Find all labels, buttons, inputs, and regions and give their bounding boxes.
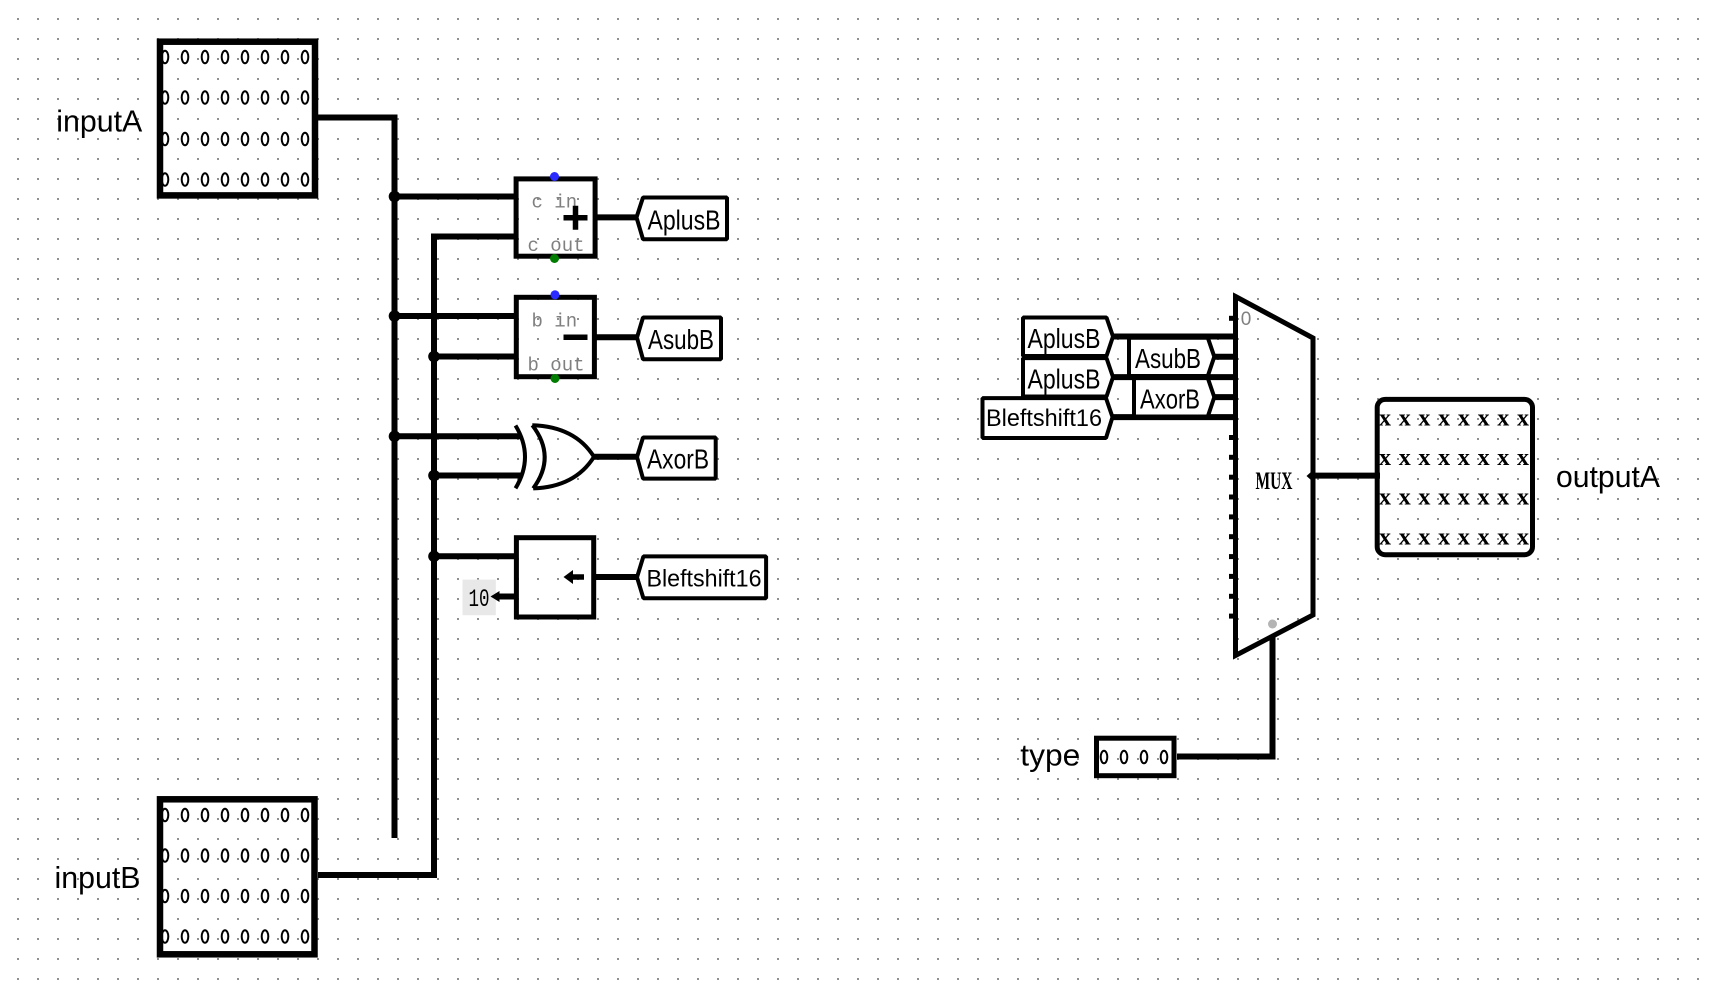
svg-text:Bleftshift16: Bleftshift16 — [647, 566, 762, 593]
tunnel AxorB (right, to MUX input 4) — [1134, 378, 1214, 416]
node junction xor A — [389, 431, 401, 443]
svg-text:inputA: inputA — [56, 103, 142, 138]
svg-text:c out: c out — [528, 235, 585, 257]
svg-text:x x x x x x x x: x x x x x x x x — [1379, 525, 1529, 551]
wire subtractor input A — [395, 313, 518, 319]
adder U1 — [516, 172, 595, 263]
wire MUX output to outputA — [1313, 473, 1380, 479]
svg-text:AxorB: AxorB — [1140, 384, 1200, 415]
wire inputA to vertical bus — [318, 118, 395, 839]
svg-text:c in: c in — [532, 192, 578, 214]
svg-text:AxorB: AxorB — [647, 444, 709, 475]
wire shifter input — [434, 553, 517, 559]
wire xor input A — [395, 433, 522, 439]
wire tunnel AxorB to MUX input 4 — [1213, 394, 1238, 400]
wire type to MUX select — [1177, 636, 1273, 757]
svg-text:Bleftshift16: Bleftshift16 — [986, 405, 1102, 432]
pin type — [1020, 738, 1174, 776]
svg-text:x x x x x x x x: x x x x x x x x — [1379, 485, 1529, 511]
xor gate U3 — [516, 425, 595, 488]
tunnel AplusB (right, to MUX input 1) — [1023, 318, 1113, 357]
tunnel AplusB (right, to MUX input 3) — [1023, 358, 1113, 396]
wire tunnel AsubB to MUX input 2 — [1213, 354, 1238, 360]
svg-text:0: 0 — [1241, 309, 1252, 330]
wire adder output — [595, 214, 637, 220]
tunnel AsubB (left, output) — [637, 318, 721, 360]
pin inputB — [55, 799, 315, 954]
svg-text:AplusB: AplusB — [648, 205, 721, 236]
pin inputA — [56, 42, 315, 196]
tunnel Bleftshift16 (right, to MUX input 5) — [983, 398, 1113, 438]
svg-text:outputA: outputA — [1556, 459, 1660, 494]
svg-text:MUX: MUX — [1256, 468, 1293, 495]
svg-text:x x x x x x x x: x x x x x x x x — [1379, 406, 1529, 432]
node junction xor B — [428, 470, 440, 482]
tunnel AplusB (left, output) — [637, 198, 728, 240]
svg-text:b out: b out — [528, 355, 585, 377]
subtractor U2 — [516, 290, 594, 383]
svg-text:inputB: inputB — [55, 860, 141, 895]
wire inputB to vertical bus up to adder input B — [318, 237, 517, 876]
shifter U4 — [516, 538, 593, 617]
svg-text:AsubB: AsubB — [1135, 343, 1201, 374]
svg-text:type: type — [1020, 738, 1080, 773]
wire subtractor output — [594, 334, 637, 340]
tunnel Bleftshift16 (left, output) — [637, 556, 766, 598]
svg-text:AplusB: AplusB — [1028, 323, 1101, 354]
pin outputA — [1377, 399, 1660, 554]
node junction shifter — [428, 551, 440, 563]
wire constant to shifter dist input — [497, 594, 517, 600]
node junction subtractor B — [428, 351, 440, 363]
node junction adder A — [389, 191, 401, 203]
tunnel AxorB (left, output) — [637, 438, 716, 479]
wire tunnel AplusB to MUX input 1 — [1112, 334, 1238, 340]
constant 10 — [463, 580, 500, 616]
MUX U5 — [1229, 297, 1316, 656]
node junction subtractor A — [389, 310, 401, 322]
wire xor input B — [434, 473, 521, 479]
wire shifter output — [593, 574, 638, 580]
svg-text:b in: b in — [532, 311, 578, 333]
wire adder input A — [395, 194, 518, 200]
wire tunnel AplusB to MUX input 3 — [1112, 374, 1238, 380]
wire tunnel Bleftshift16 to MUX input 5 — [1112, 414, 1238, 420]
svg-text:AplusB: AplusB — [1028, 364, 1101, 395]
svg-text:x x x x x x x x: x x x x x x x x — [1379, 445, 1529, 471]
wire xor output — [592, 454, 639, 460]
wire subtractor input B — [434, 354, 517, 360]
svg-text:AsubB: AsubB — [648, 324, 714, 355]
svg-text:10: 10 — [469, 585, 490, 614]
tunnel AsubB (right, to MUX input 2) — [1129, 338, 1214, 376]
